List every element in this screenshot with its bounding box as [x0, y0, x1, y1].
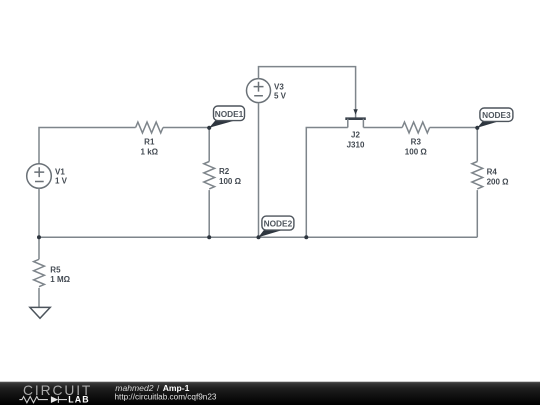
- node NODE1 pointer: [209, 120, 234, 128]
- svg-text:mahmed2 / Amp-1: mahmed2 / Amp-1: [115, 383, 189, 393]
- svg-text:NODE3: NODE3: [482, 110, 511, 120]
- svg-text:R1: R1: [144, 138, 155, 147]
- resistor R1: [136, 122, 163, 133]
- wire J2 source to rail: [306, 128, 348, 238]
- junction dot V1-rail: [37, 235, 41, 239]
- wire J2 drain to R3: [363, 127, 402, 129]
- svg-text:R5: R5: [50, 266, 61, 275]
- svg-text:1 kΩ: 1 kΩ: [141, 147, 159, 156]
- svg-text:V3: V3: [274, 82, 284, 91]
- svg-text:R3: R3: [411, 138, 422, 147]
- resistor R2: [204, 162, 215, 189]
- transistor J2 source stub: [347, 119, 349, 128]
- svg-text:J310: J310: [347, 140, 365, 149]
- svg-text:NODE1: NODE1: [215, 109, 244, 119]
- voltage source V3: [247, 79, 271, 103]
- svg-text:NODE2: NODE2: [264, 219, 293, 229]
- svg-text:LAB: LAB: [68, 395, 89, 405]
- svg-text:http://circuitlab.com/cqf9n23: http://circuitlab.com/cqf9n23: [115, 393, 217, 402]
- svg-text:J2: J2: [351, 131, 360, 140]
- svg-text:V1: V1: [55, 167, 65, 176]
- wire R5 to ground: [38, 288, 40, 308]
- wire node1 down to R2: [208, 128, 210, 162]
- wire V1 bottom: [38, 188, 40, 237]
- bottom rail: [39, 236, 477, 238]
- svg-text:1 MΩ: 1 MΩ: [50, 275, 70, 284]
- node NODE3 dot: [475, 126, 479, 130]
- svg-text:100 Ω: 100 Ω: [405, 147, 428, 156]
- svg-text:100 Ω: 100 Ω: [219, 177, 242, 186]
- resistor R5: [34, 259, 45, 286]
- wire R1 to node1: [163, 127, 209, 129]
- wire R3 to node3: [430, 127, 478, 129]
- footer bar: [0, 382, 540, 405]
- transistor J2 drain stub: [362, 119, 364, 128]
- logo diode triangle: [51, 396, 58, 403]
- resistor R3: [402, 122, 429, 133]
- wire V3 top to gate: [259, 67, 356, 118]
- svg-text:200 Ω: 200 Ω: [487, 177, 510, 186]
- wire R2 to rail: [208, 190, 210, 237]
- node label NODE2: [262, 216, 294, 230]
- svg-text:R2: R2: [219, 167, 230, 176]
- wire rail to R5: [38, 237, 40, 259]
- node label NODE3: [480, 108, 513, 121]
- logo resistor-diode glyph: [19, 396, 67, 403]
- svg-text:5 V: 5 V: [274, 92, 287, 101]
- junction dot V3-rail: [257, 235, 261, 239]
- node NODE2 pointer: [258, 229, 282, 237]
- voltage source V1: [27, 164, 52, 189]
- junction dot R2-rail: [207, 235, 211, 239]
- svg-text:R4: R4: [487, 168, 498, 177]
- wire R4 to rail: [476, 190, 478, 237]
- wire node3 down to R4: [476, 128, 478, 162]
- node NODE3 pointer: [477, 121, 499, 128]
- wire V1 top to R1: [39, 128, 136, 164]
- node label NODE1: [214, 106, 245, 121]
- node NODE1 dot: [207, 126, 211, 130]
- wire V3 bottom to rail: [258, 103, 260, 238]
- junction dot J2 source-rail: [304, 235, 308, 239]
- gate arrowhead: [353, 109, 357, 114]
- resistor R4: [472, 162, 483, 189]
- transistor J2 channel bar: [345, 117, 366, 120]
- ground: [30, 307, 50, 318]
- svg-text:1 V: 1 V: [55, 177, 68, 186]
